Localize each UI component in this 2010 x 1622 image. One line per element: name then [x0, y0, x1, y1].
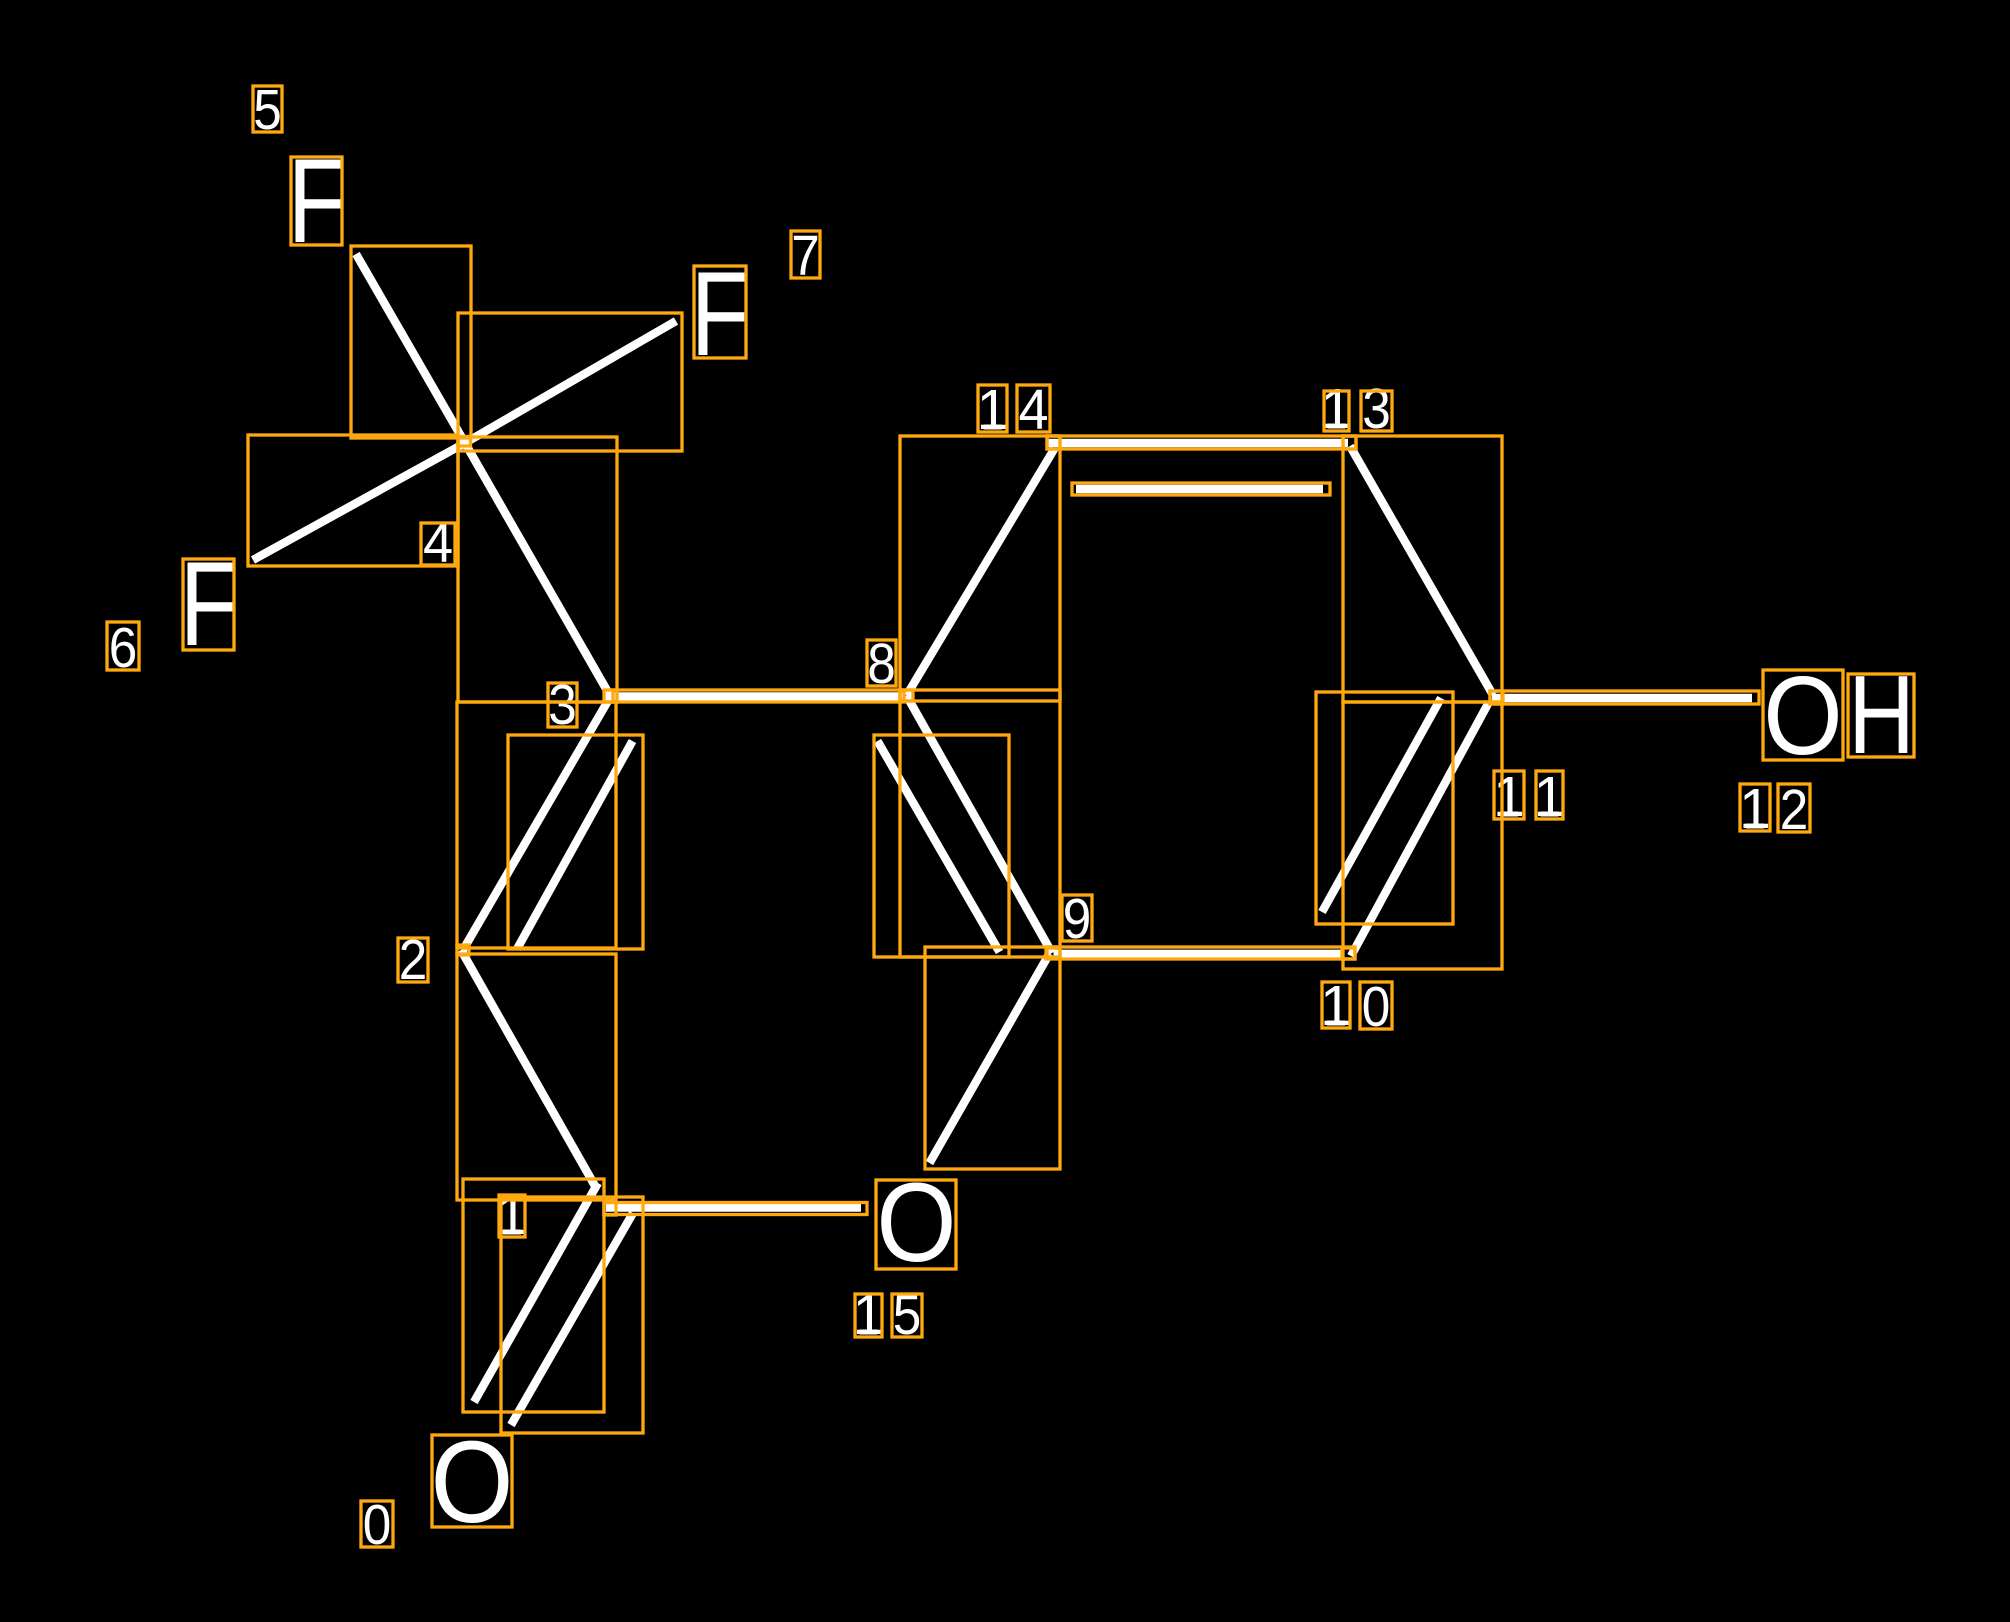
bond C1=O0 left [474, 1183, 598, 1402]
box bond C4-F7 [458, 313, 682, 451]
box bond C13-C11 [1343, 436, 1502, 702]
box bond C14=C13 outer [1047, 436, 1356, 449]
box bond C14=C13 inner [1072, 483, 1330, 495]
svg-text:F: F [691, 248, 750, 382]
box index 11 digit 1 [1494, 771, 1524, 819]
box atom C13 [1343, 436, 1356, 449]
box bond C10=C11 inner [1316, 692, 1453, 924]
box bond C4-F5 [351, 246, 471, 438]
box bond C10=C11 outer [1343, 702, 1502, 969]
box atom O0 [432, 1435, 512, 1527]
bond C11-O12 [1492, 694, 1752, 702]
box bond C4-F6 [248, 435, 458, 566]
box index 2 [398, 938, 428, 982]
box atom C9 [1047, 948, 1060, 958]
box atom O12 O [1763, 670, 1843, 760]
box index 1 [499, 1195, 525, 1237]
box atom F7 [694, 266, 746, 358]
box atom C3 [604, 690, 617, 702]
box atom C8 [900, 690, 913, 701]
bond C13-C11 [1350, 446, 1493, 695]
bond C2-C1 [461, 950, 595, 1185]
bond C9-C10 [1054, 950, 1345, 958]
box index 3 [548, 683, 577, 727]
box index 9 [1062, 895, 1092, 941]
box atom C14 [1047, 436, 1060, 449]
svg-text:F: F [288, 135, 347, 269]
box bond C4-C3 [458, 437, 617, 702]
box atom F6 [183, 559, 234, 650]
bond C8=C9 inner [878, 741, 1000, 952]
bond C1=O0 right [511, 1213, 633, 1425]
bond C3=C2 inner [517, 741, 633, 949]
box atom F5 [291, 157, 342, 245]
bond C3=C2 outer [463, 697, 611, 951]
box bond C8=C9 outer [900, 690, 1060, 957]
box bond C11-O12 [1490, 691, 1759, 704]
box index 13 digit 3 [1361, 391, 1392, 431]
box bond C9-C10 [1046, 947, 1355, 959]
bond C10=C11 outer [1351, 702, 1489, 956]
box bond C3-C8 [613, 690, 904, 702]
bond C1-O15 [606, 1203, 861, 1211]
box index 12 digit 2 [1778, 784, 1810, 832]
box atom O15 [876, 1180, 956, 1269]
bond C8=C9 outer [907, 696, 1053, 954]
box index 7 [791, 231, 820, 278]
box index 14 digit 1 [978, 385, 1007, 432]
box bond C8=C9 inner [874, 735, 1009, 957]
box bond C2-C1 [457, 954, 616, 1200]
box index 0 [361, 1501, 393, 1547]
bond C14=C13 outer [1048, 439, 1348, 447]
bond C8-C14 [907, 449, 1055, 696]
box index 6 [107, 622, 139, 670]
bond C4-F7 [465, 321, 676, 443]
box atom C2 [457, 945, 469, 955]
box atom C4 [458, 437, 471, 447]
box index 5 [253, 86, 282, 132]
box atom C1 [604, 1203, 616, 1216]
bond C4-F5 [356, 254, 465, 443]
bond C10=C11 inner [1322, 698, 1441, 912]
box atom C10 [1342, 948, 1355, 959]
box bond C1-O15 [604, 1203, 867, 1215]
bond C4-F6 [253, 443, 465, 560]
box atom O12 H [1848, 674, 1914, 757]
box bond C3=C2 inner [508, 735, 643, 949]
box index 13 digit 1 [1324, 391, 1349, 431]
bond C14=C13 inner [1076, 485, 1323, 493]
box index 11 digit 1b [1536, 771, 1563, 819]
box index 14 digit 4 [1017, 385, 1050, 432]
box atom C11 [1490, 691, 1503, 704]
box index 15 digit 1 [855, 1294, 882, 1337]
box bond C1=O0 left [463, 1179, 604, 1412]
bond O15-C9 [930, 954, 1050, 1164]
box index 12 digit 1 [1740, 784, 1770, 831]
box bond C1=O0 right [501, 1197, 643, 1433]
box index 15 digit 5 [892, 1294, 922, 1337]
bond C4-C3 [465, 443, 611, 697]
box index 10 digit 1 [1322, 982, 1350, 1028]
box index 10 digit 0 [1360, 982, 1392, 1029]
box index 8 [867, 640, 896, 686]
box bond C8-C14 [900, 436, 1060, 701]
box bond C3=C2 outer [457, 702, 616, 948]
box index 4 [421, 523, 455, 565]
box bond O15-C9 [925, 947, 1060, 1169]
bond C3-C8 [611, 692, 905, 700]
